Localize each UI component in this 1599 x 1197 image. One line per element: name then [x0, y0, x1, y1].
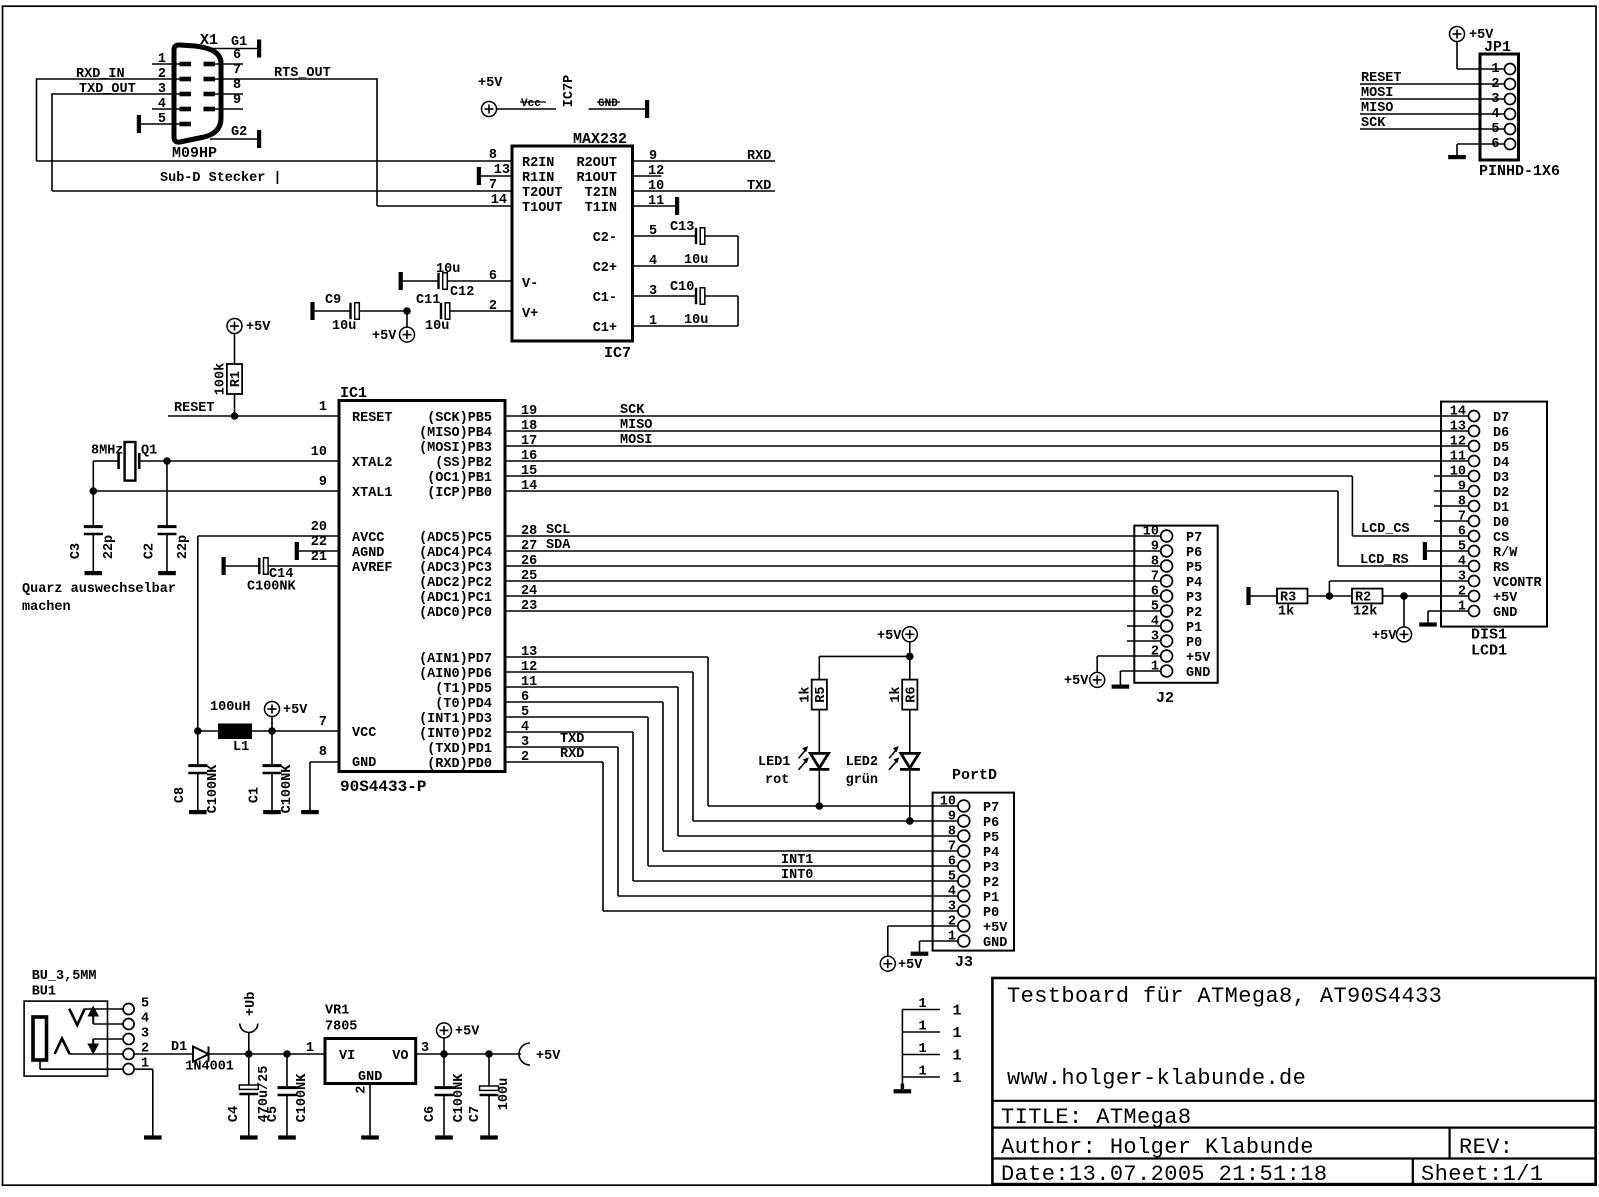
svg-text:+5V: +5V [1493, 591, 1518, 606]
svg-text:MAX232: MAX232 [573, 131, 627, 148]
wire PB1 to LCD CS [505, 476, 1469, 536]
svg-text:1: 1 [953, 1003, 962, 1020]
svg-text:10: 10 [1143, 525, 1159, 540]
net label TXD at PD1 [560, 732, 584, 747]
title block frame [992, 978, 1595, 1184]
svg-text:9: 9 [233, 93, 241, 108]
svg-text:IC1: IC1 [340, 385, 367, 402]
svg-text:C2-: C2- [593, 231, 617, 246]
svg-text:D4: D4 [1493, 456, 1509, 471]
wire MISO to JP1 pin 4 [1360, 101, 1504, 116]
svg-text:C12: C12 [450, 285, 474, 300]
pin 4 stub [152, 97, 180, 112]
svg-text:5: 5 [948, 870, 956, 885]
svg-text:G2: G2 [231, 125, 247, 140]
svg-text:C100NK: C100NK [452, 1073, 467, 1123]
svg-text:10: 10 [1450, 465, 1466, 480]
wire SCL net PC5 to J2 P7 [505, 523, 1161, 538]
pin G1 wire [207, 35, 257, 50]
capacitor C8 C100NK [173, 731, 221, 813]
jumper chain bus wire [901, 1010, 903, 1084]
IC7 pin numbers [489, 148, 664, 329]
svg-text:R3: R3 [1280, 591, 1296, 606]
net label LCD_RS [1360, 553, 1409, 568]
svg-text:M09HP: M09HP [172, 145, 217, 162]
svg-text:+5V: +5V [478, 76, 503, 91]
svg-text:P0: P0 [983, 906, 999, 921]
svg-text:LCD_RS: LCD_RS [1360, 553, 1409, 568]
BU1 jack barrel [33, 1017, 47, 1060]
wire R2 to LCD +5V [1383, 595, 1469, 597]
wire PD3 to J3 [505, 717, 958, 866]
svg-text:C100NK: C100NK [295, 1073, 310, 1123]
svg-text:12: 12 [1450, 435, 1466, 450]
wire RXD_IN to IC7 pin 8 [37, 78, 513, 161]
svg-text:J3: J3 [955, 954, 973, 971]
note Quarz auswechselbar machen [22, 582, 176, 615]
wire PD0 to J3 [505, 762, 958, 911]
svg-text:(ADC2)PC2: (ADC2)PC2 [419, 576, 492, 591]
wire RTS_OUT to IC7 pin 14 [377, 78, 512, 206]
svg-text:8: 8 [948, 825, 956, 840]
svg-text:2: 2 [355, 1085, 370, 1093]
svg-text:RXD: RXD [560, 747, 584, 762]
svg-text:+5V: +5V [1469, 28, 1494, 43]
svg-text:1k: 1k [798, 686, 813, 702]
svg-text:XTAL1: XTAL1 [352, 486, 393, 501]
BU1 pads and numbers [123, 997, 149, 1075]
svg-text:D2: D2 [1493, 486, 1509, 501]
svg-text:(OC1)PB1: (OC1)PB1 [427, 471, 492, 486]
ground at IC1 GND [301, 810, 319, 814]
svg-text:(ICP)PB0: (ICP)PB0 [427, 486, 492, 501]
stub LCD D0 [1434, 520, 1469, 522]
svg-text:AVREF: AVREF [352, 561, 393, 576]
title text Testboard [1007, 984, 1442, 1009]
svg-text:P3: P3 [1186, 591, 1202, 606]
+5V supply at LCD [1372, 596, 1412, 644]
wire PC2 to J2 P4 [505, 580, 1161, 582]
svg-text:1: 1 [919, 1042, 927, 1057]
svg-text:5: 5 [1458, 540, 1466, 555]
svg-text:+5V: +5V [1372, 629, 1397, 644]
svg-text:10u: 10u [684, 253, 708, 268]
title text www [1007, 1066, 1306, 1091]
wire BU1 pin 2 to D1 [134, 1053, 193, 1055]
svg-text:SDA: SDA [546, 538, 571, 553]
ground at R3 [1246, 587, 1277, 605]
svg-text:MISO: MISO [620, 418, 652, 433]
net label INT1 [781, 853, 813, 868]
svg-text:22p: 22p [102, 535, 117, 559]
svg-text:LCD_CS: LCD_CS [1361, 522, 1410, 537]
svg-text:8: 8 [489, 148, 497, 163]
IC7P label [562, 75, 577, 107]
svg-text:100u: 100u [497, 1078, 512, 1110]
svg-text:P2: P2 [1186, 606, 1202, 621]
ground at C6 [435, 1135, 453, 1139]
svg-text:GND: GND [1186, 666, 1210, 681]
wire VR1 VO to +5V [416, 1053, 521, 1055]
net label LCD_CS [1361, 522, 1410, 537]
wire RESET to JP1 pin 2 [1360, 71, 1504, 86]
ground at J3 [911, 952, 929, 956]
wire LED1 to P7 net [818, 771, 820, 806]
capacitor C5 C100NK [266, 1054, 310, 1135]
capacitor C10 10u [633, 280, 739, 328]
resistor R1 100k [214, 363, 245, 395]
wire MOSI to JP1 pin 3 [1360, 86, 1504, 101]
junction VCC/C8 [194, 727, 202, 735]
connector J2 box [1134, 526, 1217, 707]
svg-text:P5: P5 [1186, 561, 1202, 576]
diode D1 1N4001 [171, 1040, 234, 1074]
svg-text:(SCK)PB5: (SCK)PB5 [427, 411, 492, 426]
wire SCK to JP1 pin 5 [1360, 116, 1504, 131]
svg-text:TXD: TXD [747, 179, 771, 194]
ground at C1 [263, 810, 281, 814]
wire J2 GND [1120, 671, 1160, 685]
regulator VR1 7805 box [306, 1004, 429, 1094]
svg-text:RXD_IN: RXD_IN [76, 67, 125, 82]
wire RESET net [168, 415, 339, 417]
wire SCK net PB5 to LCD D7 [505, 403, 1469, 418]
wire XTAL2 net [93, 461, 339, 526]
svg-text:D0: D0 [1493, 516, 1509, 531]
svg-text:P1: P1 [983, 891, 999, 906]
svg-text:VCONTR: VCONTR [1493, 576, 1543, 591]
+5V supply at JP1 [1450, 27, 1505, 70]
+5V supply at VR1 out [437, 1023, 481, 1054]
svg-text:4: 4 [1458, 555, 1466, 570]
svg-text:IC7P: IC7P [562, 75, 577, 107]
svg-text:P2: P2 [983, 876, 999, 891]
svg-text:R2OUT: R2OUT [576, 156, 617, 171]
svg-text:T2OUT: T2OUT [522, 186, 563, 201]
svg-text:C3: C3 [69, 543, 84, 559]
capacitor C13 10u [633, 220, 739, 268]
wire to R5 [819, 656, 910, 679]
svg-text:(AIN0)PD6: (AIN0)PD6 [419, 667, 492, 682]
svg-text:9: 9 [948, 810, 956, 825]
svg-text:1: 1 [1458, 600, 1466, 615]
svg-text:100k: 100k [214, 363, 229, 395]
capacitor C7 100u [468, 1054, 512, 1135]
label LCD1 [1471, 643, 1507, 660]
svg-text:D5: D5 [1493, 441, 1509, 456]
svg-text:P1: P1 [1186, 621, 1202, 636]
svg-text:C8: C8 [173, 787, 188, 803]
resistor R2 12k [1352, 589, 1383, 620]
svg-text:4: 4 [141, 1012, 149, 1027]
wire PB2 to LCD D4 [505, 460, 1469, 462]
svg-text:BU_3,5MM: BU_3,5MM [32, 969, 97, 984]
svg-text:7: 7 [1151, 570, 1159, 585]
wire PD1 to J3 [505, 747, 958, 896]
svg-text:Quarz auswechselbar: Quarz auswechselbar [22, 582, 176, 597]
svg-text:R1OUT: R1OUT [576, 171, 617, 186]
svg-text:3: 3 [141, 1027, 149, 1042]
svg-text:XTAL2: XTAL2 [352, 456, 393, 471]
svg-text:3: 3 [158, 82, 166, 97]
connector X1 pads [180, 62, 216, 127]
svg-text:R2IN: R2IN [522, 156, 554, 171]
svg-text:RS: RS [1493, 561, 1509, 576]
+5V supply at VCC [265, 702, 309, 732]
svg-text:8: 8 [233, 78, 241, 93]
svg-text:C1+: C1+ [593, 321, 617, 336]
svg-text:D1: D1 [1493, 501, 1509, 516]
svg-text:1: 1 [919, 997, 927, 1012]
junction +5V/C1 [268, 727, 276, 735]
svg-text:LED2: LED2 [846, 755, 878, 770]
svg-text:+5V: +5V [877, 629, 902, 644]
svg-text:Sub-D Stecker |: Sub-D Stecker | [160, 171, 282, 186]
svg-text:R2: R2 [1355, 591, 1371, 606]
svg-text:22p: 22p [176, 535, 191, 559]
junction XTAL2 [163, 457, 171, 465]
svg-text:20: 20 [311, 520, 327, 535]
svg-text:Vcc: Vcc [521, 98, 541, 110]
svg-text:7: 7 [1458, 510, 1466, 525]
svg-text:10u: 10u [332, 319, 356, 334]
pin 7 wire RTS_OUT [213, 63, 377, 79]
svg-text:P6: P6 [1186, 546, 1202, 561]
wire R1 to RESET net [234, 394, 236, 416]
IC7P GND pin name [597, 98, 620, 110]
IC1 left pin labels [352, 411, 393, 771]
junction XTAL1 [90, 487, 98, 495]
svg-text:(TXD)PD1: (TXD)PD1 [427, 742, 492, 757]
IC1 right pin numbers [521, 404, 537, 765]
pin 2 wire RXD_IN [37, 67, 181, 82]
wire JP1 pin 6 to ground [1457, 144, 1504, 155]
svg-text:Testboard für ATMega8, AT90S44: Testboard für ATMega8, AT90S4433 [1007, 984, 1442, 1009]
svg-text:+5V: +5V [898, 958, 923, 973]
wire RXD from IC7 pin 9 [633, 149, 776, 164]
BU1 switch contact V [69, 1009, 123, 1025]
svg-text:(T0)PD4: (T0)PD4 [435, 697, 492, 712]
wire PB0 to LCD RS [505, 491, 1469, 566]
capacitor C6 C100NK [423, 1054, 467, 1135]
svg-text:7: 7 [948, 840, 956, 855]
svg-text:14: 14 [491, 193, 507, 208]
ground at C12 [399, 272, 403, 290]
svg-text:REV:: REV: [1459, 1135, 1513, 1160]
crystal Q1 8MHz [91, 442, 167, 481]
svg-text:1: 1 [919, 1065, 927, 1080]
svg-text:BU1: BU1 [32, 984, 56, 999]
svg-text:5: 5 [158, 112, 166, 127]
ground at G1 [257, 40, 261, 58]
ground at C7 [480, 1135, 498, 1139]
connector BU1 labels [32, 969, 97, 999]
capacitor C11 10u [416, 293, 512, 334]
svg-text:4: 4 [1151, 615, 1159, 630]
wire PD2 to J3 [505, 732, 958, 881]
ground at BU1 [144, 1135, 162, 1139]
svg-text:SCL: SCL [546, 523, 570, 538]
svg-text:+5V: +5V [246, 320, 271, 335]
svg-text:(ADC5)PC5: (ADC5)PC5 [419, 531, 492, 546]
capacitor C14 C100NK [226, 558, 339, 595]
ground at JP1 [1448, 155, 1466, 159]
net label RTS_OUT [274, 66, 331, 81]
wire PD4 to J3 [505, 702, 958, 851]
junction R2/+5V [1400, 592, 1408, 600]
svg-text:D7: D7 [1493, 411, 1509, 426]
wire TXD_OUT to IC7 pin 7 [52, 93, 512, 191]
title row Date [1001, 1162, 1327, 1187]
wire AVCC [198, 536, 339, 731]
svg-text:+5V: +5V [455, 1025, 480, 1040]
svg-text:C100NK: C100NK [206, 764, 221, 814]
resistor R6 1k [889, 680, 920, 710]
svg-text:TXD: TXD [560, 732, 584, 747]
svg-text:(INT0)PD2: (INT0)PD2 [419, 727, 492, 742]
svg-text:(ADC1)PC1: (ADC1)PC1 [419, 591, 492, 606]
jumper J4 pin 1 [902, 997, 961, 1020]
pin 1 stub [152, 52, 180, 67]
svg-text:C13: C13 [670, 220, 694, 235]
svg-text:12k: 12k [1353, 605, 1377, 620]
wire SDA net PC4 to J2 P6 [505, 538, 1161, 553]
ground at C2 [158, 571, 176, 575]
svg-text:1: 1 [319, 400, 327, 415]
jumper J7 pin 1 [902, 1065, 961, 1088]
svg-text:6: 6 [1458, 525, 1466, 540]
IC1 left pin numbers [311, 400, 327, 760]
svg-text:(AIN1)PD7: (AIN1)PD7 [419, 652, 492, 667]
svg-text:10u: 10u [425, 319, 449, 334]
svg-text:D6: D6 [1493, 426, 1509, 441]
svg-text:9: 9 [1458, 480, 1466, 495]
wire PC3 to J2 P5 [505, 565, 1161, 567]
svg-text:PINHD-1X6: PINHD-1X6 [1479, 163, 1560, 180]
wire PD6 to J3 [505, 672, 958, 821]
ground at J2 [1112, 685, 1130, 689]
svg-text:2: 2 [1151, 645, 1159, 660]
stub LCD D2 [1434, 490, 1469, 492]
svg-text:SCK: SCK [1361, 116, 1386, 131]
svg-text:7: 7 [489, 178, 497, 193]
svg-text:MOSI: MOSI [620, 433, 652, 448]
svg-text:+5V: +5V [372, 329, 397, 344]
svg-text:8: 8 [1151, 555, 1159, 570]
svg-text:1: 1 [1151, 660, 1159, 675]
svg-text:G1: G1 [231, 35, 247, 50]
supply +5V rail end [519, 1043, 561, 1065]
svg-text:6: 6 [948, 855, 956, 870]
wire PD7 to J3 [505, 657, 958, 806]
svg-text:10u: 10u [684, 313, 708, 328]
svg-text:MISO: MISO [1361, 101, 1393, 116]
ground at C9 [310, 302, 314, 320]
LED LED1 rot [758, 747, 829, 788]
svg-text:RESET: RESET [352, 411, 393, 426]
svg-text:14: 14 [1450, 405, 1466, 420]
svg-text:1: 1 [158, 52, 166, 67]
svg-text:9: 9 [1151, 540, 1159, 555]
junction RESET/R1 [231, 412, 239, 420]
wire GND pin 8 [310, 762, 339, 810]
svg-text:(ADC4)PC4: (ADC4)PC4 [419, 546, 492, 561]
stub LCD D1 [1434, 505, 1469, 507]
svg-text:1k: 1k [1278, 605, 1294, 620]
+5V supply at J3 [880, 956, 923, 973]
svg-text:1: 1 [953, 1025, 962, 1042]
junction LED2/P6 [906, 817, 914, 825]
svg-text:(SS)PB2: (SS)PB2 [435, 456, 492, 471]
svg-text:100uH: 100uH [210, 700, 251, 715]
svg-text:INT0: INT0 [781, 868, 813, 883]
svg-text:V-: V- [522, 277, 538, 292]
junction C7 [485, 1050, 493, 1058]
junction LED supply [906, 653, 914, 661]
svg-text:CS: CS [1493, 531, 1509, 546]
ground at C14 [222, 557, 226, 575]
svg-text:J2: J2 [1156, 690, 1174, 707]
svg-text:C1-: C1- [593, 291, 617, 306]
svg-text:1: 1 [953, 1070, 962, 1087]
svg-text:5: 5 [1151, 600, 1159, 615]
svg-text:1k: 1k [889, 686, 904, 702]
svg-text:TXD_OUT: TXD_OUT [79, 82, 136, 97]
wire J3 GND [920, 941, 958, 952]
svg-text:22: 22 [311, 535, 327, 550]
svg-text:rot: rot [765, 773, 789, 788]
svg-text:(ADC0)PC0: (ADC0)PC0 [419, 606, 492, 621]
svg-text:INT1: INT1 [781, 853, 813, 868]
wire VCC to L1 [198, 730, 218, 732]
wire PC0 to J2 P2 [505, 610, 1161, 612]
inductor L1 100uH [210, 700, 252, 755]
junction C6 [440, 1050, 448, 1058]
svg-text:T2IN: T2IN [585, 186, 617, 201]
label PortD [952, 767, 997, 784]
ground at IC7 pin 11 [633, 197, 680, 215]
capacitor C2 22p [143, 527, 192, 571]
svg-text:Author: Holger Klabunde: Author: Holger Klabunde [1001, 1135, 1314, 1160]
wire PD5 to J3 [505, 687, 958, 836]
svg-text:(T1)PD5: (T1)PD5 [435, 682, 492, 697]
svg-text:C5: C5 [266, 1106, 281, 1122]
svg-text:C100NK: C100NK [247, 580, 297, 595]
svg-text:3: 3 [1458, 570, 1466, 585]
svg-text:P7: P7 [1186, 531, 1202, 546]
svg-text:GND: GND [1493, 606, 1517, 621]
pin G2 wire [210, 125, 257, 140]
svg-text:grün: grün [846, 773, 878, 788]
wire R5 to LED1 [818, 710, 820, 754]
svg-text:9: 9 [319, 475, 327, 490]
svg-text:Date:13.07.2005 21:51:18: Date:13.07.2005 21:51:18 [1001, 1162, 1327, 1187]
svg-text:RESET: RESET [174, 401, 215, 416]
svg-text:C11: C11 [416, 293, 440, 308]
wire PC1 to J2 P3 [505, 595, 1161, 597]
svg-text:+5V: +5V [283, 703, 308, 718]
svg-text:TITLE: ATMega8: TITLE: ATMega8 [1001, 1105, 1191, 1130]
wire LED2 to P6 net [909, 771, 911, 821]
svg-text:P3: P3 [983, 861, 999, 876]
svg-text:D1: D1 [171, 1040, 187, 1055]
svg-text:10: 10 [940, 795, 956, 810]
junction R3/R2/VCONTR [1326, 592, 1334, 600]
svg-text:+5V: +5V [1064, 674, 1089, 689]
ground at C4 [240, 1135, 258, 1139]
svg-text:4: 4 [948, 885, 956, 900]
svg-text:RXD: RXD [747, 149, 771, 164]
